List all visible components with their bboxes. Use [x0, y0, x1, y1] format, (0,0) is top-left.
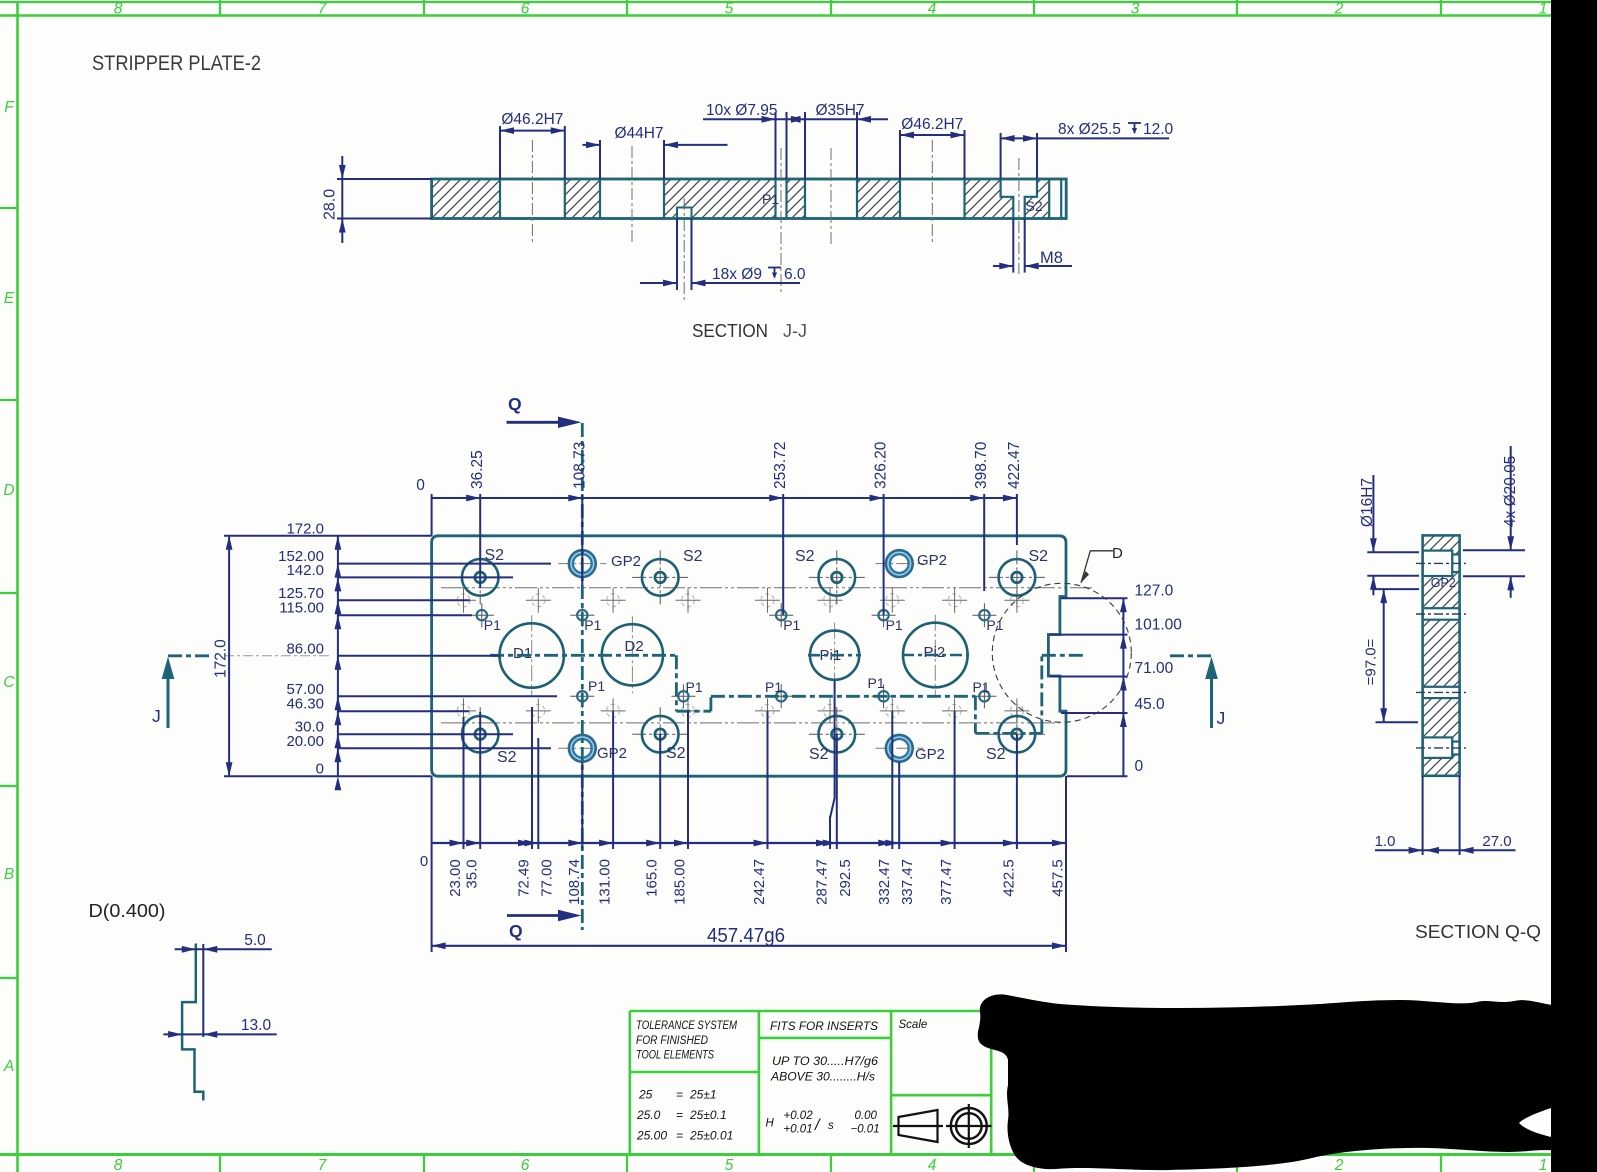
svg-text:E: E [4, 290, 15, 307]
svg-text:Ø46.2H7: Ø46.2H7 [501, 111, 563, 128]
svg-text:GP2: GP2 [611, 553, 641, 570]
svg-text:=: = [676, 1129, 683, 1143]
svg-text:6.0: 6.0 [784, 266, 806, 283]
svg-text:D: D [3, 482, 14, 499]
svg-text:P1: P1 [588, 678, 605, 694]
svg-text:18x Ø9: 18x Ø9 [712, 266, 762, 283]
svg-text:242.47: 242.47 [751, 859, 768, 905]
svg-text:4: 4 [928, 1, 937, 18]
svg-text:108.74: 108.74 [566, 859, 583, 905]
svg-text:172.0: 172.0 [213, 639, 230, 678]
svg-text:s: s [828, 1120, 834, 1132]
svg-text:P1: P1 [686, 679, 703, 695]
svg-text:4x Ø20.05: 4x Ø20.05 [1502, 456, 1519, 528]
svg-text:13.0: 13.0 [241, 1017, 272, 1034]
svg-text:GP2: GP2 [597, 745, 627, 762]
svg-text:1.0: 1.0 [1375, 833, 1396, 850]
svg-text:45.0: 45.0 [1135, 696, 1166, 713]
svg-text:2: 2 [1334, 1157, 1344, 1172]
svg-text:S2: S2 [986, 746, 1006, 763]
svg-text:5: 5 [725, 1, 734, 18]
svg-text:FITS FOR INSERTS: FITS FOR INSERTS [770, 1019, 878, 1033]
svg-text:12.0: 12.0 [1143, 121, 1174, 138]
svg-text:J-J: J-J [783, 321, 807, 341]
svg-text:0: 0 [420, 853, 428, 870]
svg-text:=97.0=: =97.0= [1363, 638, 1380, 685]
svg-text:5: 5 [725, 1157, 734, 1172]
svg-text:422.5: 422.5 [1000, 859, 1017, 897]
svg-text:1: 1 [1539, 1157, 1548, 1172]
svg-text:8x Ø25.5: 8x Ø25.5 [1058, 121, 1121, 138]
svg-text:72.49: 72.49 [516, 859, 533, 897]
svg-text:46.30: 46.30 [286, 696, 324, 713]
svg-text:−0.01: −0.01 [851, 1124, 880, 1136]
svg-text:4: 4 [928, 1157, 937, 1172]
svg-text:Ø46.2H7: Ø46.2H7 [901, 116, 963, 133]
svg-text:Ø16H7: Ø16H7 [1359, 478, 1376, 527]
svg-text:253.72: 253.72 [772, 442, 789, 489]
svg-text:S2: S2 [485, 547, 505, 564]
svg-text:P1: P1 [973, 679, 990, 695]
svg-text:172.0: 172.0 [286, 520, 324, 537]
svg-text:GP2: GP2 [915, 746, 945, 763]
svg-text:+0.02: +0.02 [784, 1110, 814, 1122]
svg-text:D(0.400): D(0.400) [89, 901, 166, 921]
svg-text:D: D [1112, 545, 1123, 562]
svg-text:S2: S2 [809, 746, 829, 763]
svg-text:SECTION Q-Q: SECTION Q-Q [1415, 921, 1541, 942]
svg-text:C: C [3, 674, 15, 691]
svg-text:P1: P1 [868, 675, 885, 691]
svg-text:422.47: 422.47 [1006, 442, 1023, 489]
svg-text:35.0: 35.0 [464, 859, 481, 888]
svg-text:6: 6 [521, 1157, 530, 1172]
svg-text:8: 8 [114, 1157, 123, 1172]
svg-text:Ø44H7: Ø44H7 [614, 125, 663, 142]
svg-text:B: B [4, 866, 14, 883]
svg-text:127.0: 127.0 [1135, 583, 1174, 600]
svg-text:Scale: Scale [899, 1019, 928, 1031]
svg-text:Q: Q [508, 394, 522, 414]
svg-text:10x Ø7.95: 10x Ø7.95 [706, 102, 778, 119]
svg-text:S2: S2 [666, 745, 686, 762]
svg-text:20.00: 20.00 [286, 733, 324, 750]
svg-text:326.20: 326.20 [873, 441, 890, 489]
svg-text:23.00: 23.00 [447, 859, 464, 897]
svg-text:332.47: 332.47 [876, 859, 893, 905]
svg-text:Ø35H7: Ø35H7 [815, 102, 864, 119]
svg-text:1: 1 [1539, 1, 1548, 18]
svg-text:H: H [766, 1118, 775, 1130]
svg-text:D2: D2 [625, 638, 644, 655]
svg-text:P1: P1 [886, 617, 903, 633]
svg-text:6: 6 [521, 1, 530, 18]
svg-text:S2: S2 [795, 548, 815, 565]
svg-text:27.0: 27.0 [1482, 833, 1511, 850]
svg-text:36.25: 36.25 [469, 450, 486, 489]
svg-text:108.73: 108.73 [571, 442, 588, 489]
svg-text:S2: S2 [683, 548, 703, 565]
svg-text:Q: Q [509, 921, 523, 941]
svg-text:28.0: 28.0 [322, 189, 339, 220]
svg-text:25±0.1: 25±0.1 [689, 1108, 727, 1122]
svg-text:SECTION: SECTION [692, 321, 768, 341]
svg-text:M8: M8 [1040, 249, 1063, 267]
svg-text:TOOL ELEMENTS: TOOL ELEMENTS [636, 1048, 714, 1062]
svg-text:77.00: 77.00 [538, 859, 555, 897]
svg-text:292.5: 292.5 [837, 859, 854, 897]
svg-text:185.00: 185.00 [672, 859, 689, 905]
svg-text:GP2: GP2 [917, 552, 947, 569]
svg-text:8: 8 [114, 1, 123, 18]
svg-text:131.00: 131.00 [597, 859, 614, 905]
svg-text:J: J [152, 706, 161, 726]
svg-text:GP2: GP2 [1431, 576, 1456, 590]
svg-text:457.47g6: 457.47g6 [707, 925, 785, 947]
svg-text:5.0: 5.0 [244, 932, 266, 949]
svg-text:Pi2: Pi2 [924, 644, 946, 661]
svg-text:S2: S2 [497, 749, 517, 766]
svg-text:115.00: 115.00 [279, 600, 324, 617]
svg-text:A: A [3, 1058, 14, 1075]
svg-text:337.47: 337.47 [899, 859, 916, 905]
svg-text:2: 2 [1334, 1, 1344, 18]
svg-text:71.00: 71.00 [1135, 660, 1174, 677]
svg-text:377.47: 377.47 [938, 859, 955, 905]
svg-text:7: 7 [318, 1157, 328, 1172]
svg-text:P1: P1 [783, 617, 800, 633]
svg-text:287.47: 287.47 [814, 859, 831, 905]
svg-text:+0.01: +0.01 [784, 1124, 813, 1136]
svg-text:0: 0 [416, 477, 425, 494]
svg-text:D1: D1 [513, 645, 532, 662]
svg-text:142.0: 142.0 [286, 562, 324, 579]
svg-text:=: = [676, 1108, 683, 1122]
svg-text:0: 0 [316, 761, 324, 778]
svg-text:J: J [1217, 708, 1226, 728]
svg-text:25: 25 [638, 1088, 653, 1102]
svg-text:101.00: 101.00 [1135, 616, 1183, 633]
svg-text:P1: P1 [484, 617, 501, 633]
svg-text:P1: P1 [584, 617, 601, 633]
svg-text:F: F [4, 99, 15, 116]
svg-text:P1: P1 [765, 679, 782, 695]
svg-text:ABOVE 30........H/s: ABOVE 30........H/s [770, 1070, 875, 1084]
svg-text:165.0: 165.0 [644, 859, 661, 897]
svg-text:86.00: 86.00 [286, 640, 324, 657]
svg-text:TOLERANCE SYSTEM: TOLERANCE SYSTEM [636, 1018, 737, 1032]
svg-text:25±0.01: 25±0.01 [689, 1129, 733, 1143]
svg-text:STRIPPER PLATE-2: STRIPPER PLATE-2 [92, 52, 261, 75]
svg-text:7: 7 [318, 1, 328, 18]
svg-text:0.00: 0.00 [855, 1110, 878, 1122]
svg-text:3: 3 [1131, 1, 1140, 18]
svg-text:457.5: 457.5 [1050, 859, 1067, 897]
svg-text:398.70: 398.70 [973, 441, 990, 489]
svg-text:FOR FINISHED: FOR FINISHED [636, 1033, 708, 1047]
svg-text:P1: P1 [762, 191, 779, 207]
svg-text:25.00: 25.00 [636, 1129, 667, 1143]
svg-text:S2: S2 [1029, 548, 1049, 565]
svg-text:UP TO 30.....H7/g6: UP TO 30.....H7/g6 [772, 1054, 878, 1068]
svg-text:0: 0 [1135, 758, 1144, 775]
svg-text:=: = [676, 1088, 683, 1102]
svg-text:25±1: 25±1 [689, 1088, 717, 1102]
svg-text:25.0: 25.0 [636, 1108, 661, 1122]
svg-text:S2: S2 [1026, 198, 1043, 214]
